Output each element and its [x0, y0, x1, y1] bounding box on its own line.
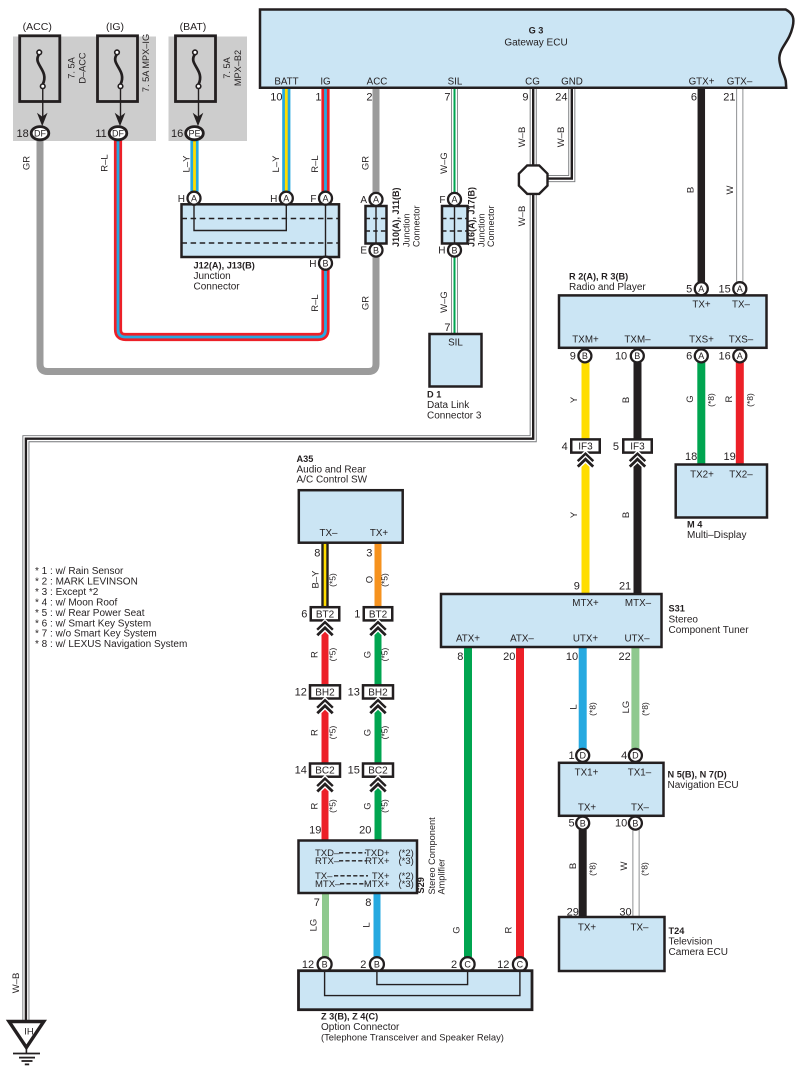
- wire GR: G3 ACC pin2 to J10 A(A): [373, 88, 380, 193]
- svg-text:TX–: TX–: [631, 803, 650, 814]
- svg-text:(*5): (*5): [327, 647, 337, 661]
- svg-text:* 7 : w/o Smart Key System: * 7 : w/o Smart Key System: [35, 629, 157, 640]
- svg-text:GTX–: GTX–: [727, 77, 753, 88]
- ECU G3 Gateway ECU box: [260, 10, 793, 88]
- svg-text:L–Y: L–Y: [182, 155, 193, 173]
- svg-text:W–B: W–B: [11, 973, 22, 994]
- svg-text:5: 5: [613, 441, 619, 453]
- wire W-B: splice octagon to ground IH: [26, 194, 533, 1022]
- svg-text:* 3 : Except *2: * 3 : Except *2: [35, 587, 99, 598]
- svg-text:A: A: [191, 193, 197, 203]
- svg-text:7: 7: [444, 92, 450, 104]
- navigation ECU pin 1(D): [576, 749, 589, 762]
- Z internal link 2(B)-2(C): [377, 972, 468, 985]
- svg-text:UTX+: UTX+: [573, 634, 599, 645]
- wire B: G3 GTX+ pin6 to radio TX+ 5(A): [698, 88, 706, 283]
- connector Z3(B) Z4(C) Option Connector box: [299, 971, 533, 1010]
- svg-text:20: 20: [503, 651, 515, 663]
- svg-text:RTX–: RTX–: [315, 856, 340, 867]
- svg-text:9: 9: [574, 581, 580, 593]
- svg-text:14: 14: [295, 765, 307, 777]
- svg-text:TX+: TX+: [370, 528, 389, 539]
- svg-text:J10(A), J11(B): J10(A), J11(B): [391, 187, 401, 247]
- svg-text:A35: A35: [297, 454, 314, 464]
- svg-text:* 1 : w/ Rain Sensor: * 1 : w/ Rain Sensor: [35, 566, 124, 577]
- svg-text:(*5): (*5): [327, 799, 337, 813]
- wire W-B: G3 GND pin24 to splice octagon: [548, 88, 572, 179]
- svg-text:ACC: ACC: [367, 77, 388, 88]
- svg-text:H: H: [438, 246, 445, 257]
- svg-text:H: H: [178, 194, 185, 205]
- connector D1 Data Link Connector 3 box: [430, 334, 482, 387]
- wire W-B: G3 CG pin9 to splice octagon: [530, 88, 537, 166]
- svg-text:R–L: R–L: [100, 154, 111, 171]
- option connector pin 12(B): [318, 957, 332, 971]
- ECU S31 Stereo Component Tuner box: [441, 594, 662, 647]
- svg-text:A: A: [698, 284, 704, 294]
- svg-text:G: G: [362, 802, 373, 809]
- fuse IG body: [98, 36, 138, 102]
- wire W: G3 GTX- pin21 to radio TX- 15(A): [736, 88, 743, 283]
- svg-text:(*3): (*3): [399, 879, 414, 890]
- svg-text:12: 12: [497, 959, 509, 971]
- svg-text:2: 2: [366, 92, 372, 104]
- navigation ECU pin 10(B): [629, 817, 642, 830]
- svg-text:L: L: [568, 704, 579, 709]
- svg-text:A: A: [283, 193, 289, 203]
- wire G: BH2 to BC2: [375, 698, 382, 764]
- svg-text:Connector: Connector: [194, 282, 241, 293]
- svg-text:12: 12: [295, 687, 307, 699]
- svg-text:W: W: [725, 185, 736, 194]
- svg-text:LG: LG: [308, 919, 319, 932]
- svg-text:D: D: [632, 751, 639, 761]
- svg-text:R–L: R–L: [310, 294, 321, 311]
- svg-text:D–ACC: D–ACC: [78, 52, 88, 84]
- svg-text:3: 3: [366, 548, 372, 560]
- connector oval DF pin 11: [109, 127, 127, 140]
- svg-text:(*5): (*5): [327, 573, 337, 587]
- svg-text:TXM–: TXM–: [624, 334, 651, 345]
- svg-text:R: R: [309, 802, 320, 809]
- wire R: BC2 to S29 pin19: [322, 777, 329, 841]
- svg-text:B: B: [582, 351, 588, 361]
- svg-text:G: G: [362, 729, 373, 736]
- svg-text:(IG): (IG): [106, 21, 124, 33]
- svg-text:MTX–: MTX–: [625, 598, 652, 609]
- svg-text:* 5 : w/ Rear Power Seat: * 5 : w/ Rear Power Seat: [35, 608, 145, 619]
- svg-text:9: 9: [522, 92, 528, 104]
- svg-text:B: B: [621, 397, 632, 403]
- wire G: radio TXS+ 6(A) to M4 TX2+ pin18: [697, 362, 705, 464]
- svg-text:Radio and Player: Radio and Player: [569, 282, 646, 293]
- svg-text:BT2: BT2: [316, 609, 335, 620]
- svg-text:N 5(B), N 7(D): N 5(B), N 7(D): [668, 770, 727, 780]
- svg-text:(*5): (*5): [379, 647, 389, 661]
- ground IH symbol: [9, 1022, 44, 1048]
- svg-text:R–L: R–L: [310, 155, 321, 172]
- amplifier S29 Stereo Component Amplifier box: [299, 841, 418, 894]
- svg-text:A: A: [451, 195, 457, 205]
- svg-text:B: B: [580, 818, 586, 828]
- svg-text:8: 8: [314, 548, 320, 560]
- wire G: BT2 to BH2: [375, 621, 382, 686]
- svg-text:T24: T24: [669, 926, 686, 936]
- svg-text:H: H: [270, 194, 277, 205]
- svg-text:10: 10: [270, 92, 282, 104]
- BT2 chevrons right: [370, 623, 385, 630]
- svg-text:Junction: Junction: [402, 213, 412, 247]
- svg-text:R: R: [309, 651, 320, 658]
- svg-text:Y: Y: [569, 511, 580, 518]
- navigation ECU pin 5(B): [576, 817, 589, 830]
- ECU T24 Television Camera ECU box: [559, 917, 665, 971]
- svg-text:7: 7: [314, 897, 320, 909]
- fuse ACC body: [20, 36, 60, 102]
- connector BC2 pin15: [363, 764, 393, 777]
- svg-text:Camera ECU: Camera ECU: [669, 947, 728, 958]
- svg-text:MTX–: MTX–: [315, 879, 341, 890]
- svg-text:GR: GR: [361, 156, 372, 170]
- option connector pin 2(C): [461, 957, 475, 971]
- svg-text:W–G: W–G: [439, 152, 450, 174]
- svg-text:S29: S29: [416, 877, 426, 893]
- connector BT2 pin6: [311, 607, 340, 620]
- connector IF3 pin4 on yellow wire: [571, 439, 600, 452]
- svg-text:SIL: SIL: [448, 338, 463, 349]
- svg-text:G: G: [685, 395, 696, 402]
- svg-text:B: B: [322, 258, 328, 268]
- svg-text:B: B: [568, 863, 579, 869]
- wire R-L: G3 IG pin1 to J12 F(A): [321, 88, 329, 192]
- connector oval PE pin 16: [186, 127, 204, 140]
- svg-text:10: 10: [615, 351, 627, 363]
- svg-text:2: 2: [360, 959, 366, 971]
- svg-text:B: B: [322, 959, 328, 969]
- svg-text:12: 12: [302, 959, 314, 971]
- svg-text:TX+: TX+: [578, 923, 597, 934]
- svg-text:(*5): (*5): [379, 799, 389, 813]
- wire R: BH2 to BC2: [322, 698, 329, 764]
- svg-text:1: 1: [315, 92, 321, 104]
- radio pin TX+ 5(A): [695, 282, 708, 295]
- svg-text:(*3): (*3): [399, 856, 414, 867]
- wire B: radio TXM- 10(B) via IF3 to S31 MTX- pin21: [634, 362, 642, 593]
- svg-text:DF: DF: [112, 129, 124, 139]
- wire R-L loop: fuse IG DF11 to junction J12 H(B): [118, 139, 326, 337]
- svg-text:CG: CG: [525, 77, 540, 88]
- svg-text:TXM+: TXM+: [572, 334, 599, 345]
- svg-text:L–Y: L–Y: [271, 155, 282, 173]
- svg-text:M 4: M 4: [687, 520, 703, 530]
- svg-text:* 2 : MARK LEVINSON: * 2 : MARK LEVINSON: [35, 576, 138, 587]
- svg-text:6: 6: [301, 609, 307, 621]
- switch A35 Audio and Rear A/C Control SW box: [299, 490, 403, 543]
- svg-text:J16(A), J17(B): J16(A), J17(B): [467, 187, 477, 247]
- svg-text:A: A: [737, 351, 743, 361]
- svg-text:4: 4: [621, 750, 627, 762]
- svg-text:20: 20: [359, 825, 371, 837]
- wire L-Y: fuse BAT PE16 to J12 H(A): [190, 139, 198, 192]
- svg-text:Gateway ECU: Gateway ECU: [504, 38, 567, 49]
- wire GR loop: fuse ACC DF18 to junction J10 E(B): [40, 139, 376, 372]
- BC2 chevrons left: [317, 779, 332, 786]
- svg-text:C: C: [517, 959, 524, 969]
- svg-text:(*8): (*8): [640, 702, 650, 716]
- svg-text:R: R: [724, 395, 735, 402]
- svg-text:Connector: Connector: [486, 205, 496, 247]
- svg-text:SIL: SIL: [448, 77, 463, 88]
- wire B: navigation ECU TX+ 5(B) to T24 TX+ pin29: [579, 830, 587, 917]
- svg-text:* 4 : w/ Moon Roof: * 4 : w/ Moon Roof: [35, 597, 117, 608]
- svg-text:13: 13: [348, 687, 360, 699]
- option connector pin 12(C): [513, 957, 527, 971]
- IF3 chevrons yellow: [578, 454, 593, 461]
- svg-text:R: R: [503, 926, 514, 933]
- svg-text:11: 11: [95, 128, 106, 140]
- svg-text:(*5): (*5): [379, 725, 389, 739]
- svg-text:1: 1: [568, 750, 574, 762]
- svg-text:7: 7: [444, 322, 450, 334]
- svg-text:21: 21: [619, 581, 631, 593]
- svg-text:Stereo Component: Stereo Component: [427, 817, 437, 895]
- svg-text:W–G: W–G: [439, 291, 450, 313]
- svg-text:G: G: [362, 651, 373, 658]
- svg-text:Component Tuner: Component Tuner: [669, 625, 750, 636]
- svg-text:BC2: BC2: [368, 766, 388, 777]
- svg-text:(*8): (*8): [639, 862, 649, 876]
- svg-text:22: 22: [619, 651, 631, 663]
- svg-text:W: W: [619, 861, 630, 870]
- Z internal link 12(B)-12(C): [325, 972, 520, 996]
- svg-text:(*5): (*5): [327, 725, 337, 739]
- svg-text:ATX+: ATX+: [456, 634, 480, 645]
- svg-text:D: D: [579, 751, 586, 761]
- svg-text:B: B: [634, 351, 640, 361]
- svg-text:W–B: W–B: [517, 127, 528, 148]
- svg-text:1: 1: [354, 609, 360, 621]
- svg-text:O: O: [364, 576, 375, 583]
- svg-text:Navigation ECU: Navigation ECU: [668, 780, 739, 791]
- fuse BAT element: [193, 54, 200, 84]
- svg-text:A: A: [698, 351, 704, 361]
- svg-text:10: 10: [615, 818, 627, 830]
- ECU R2(A) R3(B) Radio and Player box: [559, 295, 767, 347]
- svg-text:(*8): (*8): [587, 862, 597, 876]
- wire L: S31 UTX+ pin10 to navigation ECU TX1+ 1(D): [579, 648, 587, 749]
- wire R: S31 ATX- pin20 to option connector 12(C): [516, 648, 524, 957]
- svg-text:5: 5: [568, 818, 574, 830]
- svg-text:(BAT): (BAT): [180, 21, 207, 33]
- wire LG: S29 pin7 to option connector 12(B): [322, 893, 329, 957]
- svg-text:H: H: [309, 259, 316, 270]
- ECU M4 Multi-Display box: [676, 465, 767, 518]
- svg-text:2: 2: [451, 959, 457, 971]
- svg-text:18: 18: [17, 128, 29, 140]
- svg-text:F: F: [439, 195, 445, 206]
- svg-text:Connector: Connector: [412, 205, 422, 247]
- wire R: BT2 to BH2: [322, 621, 329, 686]
- junction connector J10(A) J11(B) box: [366, 206, 387, 244]
- J10 pin A(A): [370, 193, 383, 206]
- svg-text:8: 8: [365, 897, 371, 909]
- BC2 chevrons right: [370, 779, 385, 786]
- J10 pin E(B): [370, 244, 383, 257]
- svg-text:Junction: Junction: [194, 271, 231, 282]
- svg-text:(ACC): (ACC): [23, 21, 52, 33]
- wire W-G: G3 SIL pin7 to J16 F(A): [451, 88, 458, 193]
- svg-text:B: B: [621, 512, 632, 518]
- svg-text:(*8): (*8): [706, 393, 716, 407]
- svg-text:A: A: [373, 195, 379, 205]
- svg-text:19: 19: [724, 451, 736, 463]
- svg-text:BT2: BT2: [369, 609, 388, 620]
- svg-text:TX2–: TX2–: [729, 470, 753, 481]
- svg-text:G 3: G 3: [529, 26, 544, 36]
- svg-text:Y: Y: [569, 396, 580, 403]
- BH2 chevrons right: [370, 701, 385, 708]
- option connector pin 2(B): [370, 957, 384, 971]
- svg-text:(*8): (*8): [745, 393, 755, 407]
- svg-text:TX+: TX+: [692, 299, 711, 310]
- svg-text:TX2+: TX2+: [690, 470, 714, 481]
- svg-text:9: 9: [570, 351, 576, 363]
- svg-text:5: 5: [686, 283, 692, 295]
- svg-text:Amplifier: Amplifier: [437, 859, 447, 895]
- svg-text:D 1: D 1: [427, 390, 441, 400]
- J12 pin H(A) left: [188, 192, 201, 205]
- fuse ACC lead arrow: [42, 89, 44, 117]
- svg-text:E: E: [360, 246, 367, 257]
- svg-text:IH: IH: [24, 1027, 34, 1038]
- wire B-Y: A35 TX- pin8 to BT2: [321, 543, 328, 608]
- svg-text:R 2(A), R 3(B): R 2(A), R 3(B): [569, 272, 628, 282]
- svg-text:DF: DF: [34, 129, 46, 139]
- svg-text:BC2: BC2: [315, 766, 335, 777]
- svg-text:16: 16: [719, 351, 731, 363]
- wire G: BC2 to S29 pin20: [375, 777, 382, 841]
- svg-text:B: B: [632, 818, 638, 828]
- radio pin TX- 15(A): [733, 282, 746, 295]
- svg-text:TX+: TX+: [578, 803, 597, 814]
- svg-text:L: L: [361, 922, 372, 927]
- connector BH2 pin13: [363, 685, 393, 698]
- svg-text:10: 10: [566, 651, 578, 663]
- svg-text:A: A: [737, 284, 743, 294]
- svg-text:S31: S31: [669, 604, 685, 614]
- svg-text:Stereo: Stereo: [669, 615, 699, 626]
- svg-text:TX–: TX–: [631, 923, 650, 934]
- junction connector J16(A) J17(B) box: [442, 206, 468, 244]
- svg-text:Junction: Junction: [477, 213, 487, 247]
- IF3 chevrons black: [630, 454, 645, 461]
- wire O: A35 TX+ pin3 to BT2: [375, 543, 382, 608]
- ECU N5(B) N7(D) Navigation ECU box: [559, 763, 664, 816]
- svg-text:(Telephone Transceiver and Spe: (Telephone Transceiver and Speaker Relay…: [321, 1031, 504, 1042]
- svg-text:ATX–: ATX–: [510, 634, 534, 645]
- svg-text:8: 8: [457, 651, 463, 663]
- connector oval DF pin 18: [31, 127, 49, 140]
- svg-text:15: 15: [719, 283, 731, 295]
- svg-text:W–B: W–B: [556, 127, 567, 148]
- svg-text:LG: LG: [621, 701, 632, 714]
- BH2 chevrons left: [317, 701, 332, 708]
- svg-text:BATT: BATT: [274, 77, 298, 88]
- svg-text:RTX+: RTX+: [365, 856, 390, 867]
- svg-text:6: 6: [686, 351, 692, 363]
- svg-text:4: 4: [562, 441, 568, 453]
- connector IF3 pin5 on black wire: [623, 439, 652, 452]
- svg-text:B: B: [685, 187, 696, 193]
- svg-text:TXS–: TXS–: [729, 334, 754, 345]
- connector BT2 pin1: [364, 607, 393, 620]
- wire L: S29 pin8 to option connector 2(B): [374, 893, 381, 957]
- svg-text:W–B: W–B: [517, 206, 528, 227]
- svg-text:TX1–: TX1–: [628, 768, 652, 779]
- svg-text:7. 5A: 7. 5A: [67, 56, 77, 78]
- svg-text:TX–: TX–: [320, 528, 339, 539]
- svg-text:A: A: [360, 195, 367, 206]
- wire W-G: J16 H(B) to SIL connector pin7: [451, 257, 458, 335]
- svg-text:MTX+: MTX+: [364, 879, 390, 890]
- svg-text:Connector 3: Connector 3: [427, 411, 482, 422]
- svg-text:Data Link: Data Link: [427, 400, 470, 411]
- wire G: S31 ATX+ pin8 to option connector 2(C): [464, 648, 472, 957]
- fuse ACC element: [37, 54, 44, 84]
- svg-text:PE: PE: [188, 129, 200, 139]
- J12 pin H(A) middle: [280, 192, 293, 205]
- J16 pin H(B): [448, 244, 461, 257]
- svg-text:GTX+: GTX+: [689, 77, 715, 88]
- svg-text:C: C: [464, 959, 471, 969]
- svg-text:B–Y: B–Y: [310, 570, 321, 589]
- svg-text:18: 18: [685, 451, 697, 463]
- svg-text:(*5): (*5): [379, 573, 389, 587]
- svg-text:B: B: [451, 245, 457, 255]
- wire LG: S31 UTX- pin22 to navigation ECU TX1- 4(D): [631, 648, 639, 749]
- J12 pin H(B) bottom: [319, 257, 332, 270]
- J12 internal links: [194, 206, 286, 231]
- fuse IG lead arrow: [120, 89, 122, 117]
- svg-text:J12(A), J13(B): J12(A), J13(B): [194, 261, 255, 271]
- svg-text:16: 16: [171, 128, 183, 140]
- connector BH2 pin12: [310, 685, 340, 698]
- BT2 chevrons left: [317, 623, 332, 630]
- svg-text:GND: GND: [561, 77, 583, 88]
- svg-text:MTX+: MTX+: [572, 598, 599, 609]
- svg-text:Z 3(B), Z 4(C): Z 3(B), Z 4(C): [321, 1012, 378, 1022]
- svg-text:TX1+: TX1+: [575, 768, 599, 779]
- wire W: navigation ECU TX- 10(B) to T24 TX- pin30: [633, 830, 640, 917]
- J12 pin F(A): [319, 192, 332, 205]
- svg-text:Multi–Display: Multi–Display: [687, 530, 746, 541]
- fuse panel right (BAT): [169, 37, 248, 142]
- svg-text:7. 5A MPX–IG: 7. 5A MPX–IG: [141, 34, 151, 92]
- svg-text:TXS+: TXS+: [689, 334, 714, 345]
- svg-text:* 8 : w/ LEXUS Navigation Syst: * 8 : w/ LEXUS Navigation System: [35, 639, 187, 650]
- svg-text:19: 19: [309, 825, 321, 837]
- svg-text:A/C Control SW: A/C Control SW: [297, 475, 368, 486]
- svg-text:15: 15: [348, 765, 360, 777]
- fuse BAT body: [176, 36, 216, 102]
- svg-text:F: F: [310, 194, 316, 205]
- svg-text:7. 5A: 7. 5A: [222, 56, 232, 78]
- svg-text:6: 6: [691, 92, 697, 104]
- svg-text:A: A: [322, 193, 328, 203]
- navigation ECU pin 4(D): [629, 749, 642, 762]
- svg-text:B: B: [374, 959, 380, 969]
- svg-text:GR: GR: [22, 156, 33, 170]
